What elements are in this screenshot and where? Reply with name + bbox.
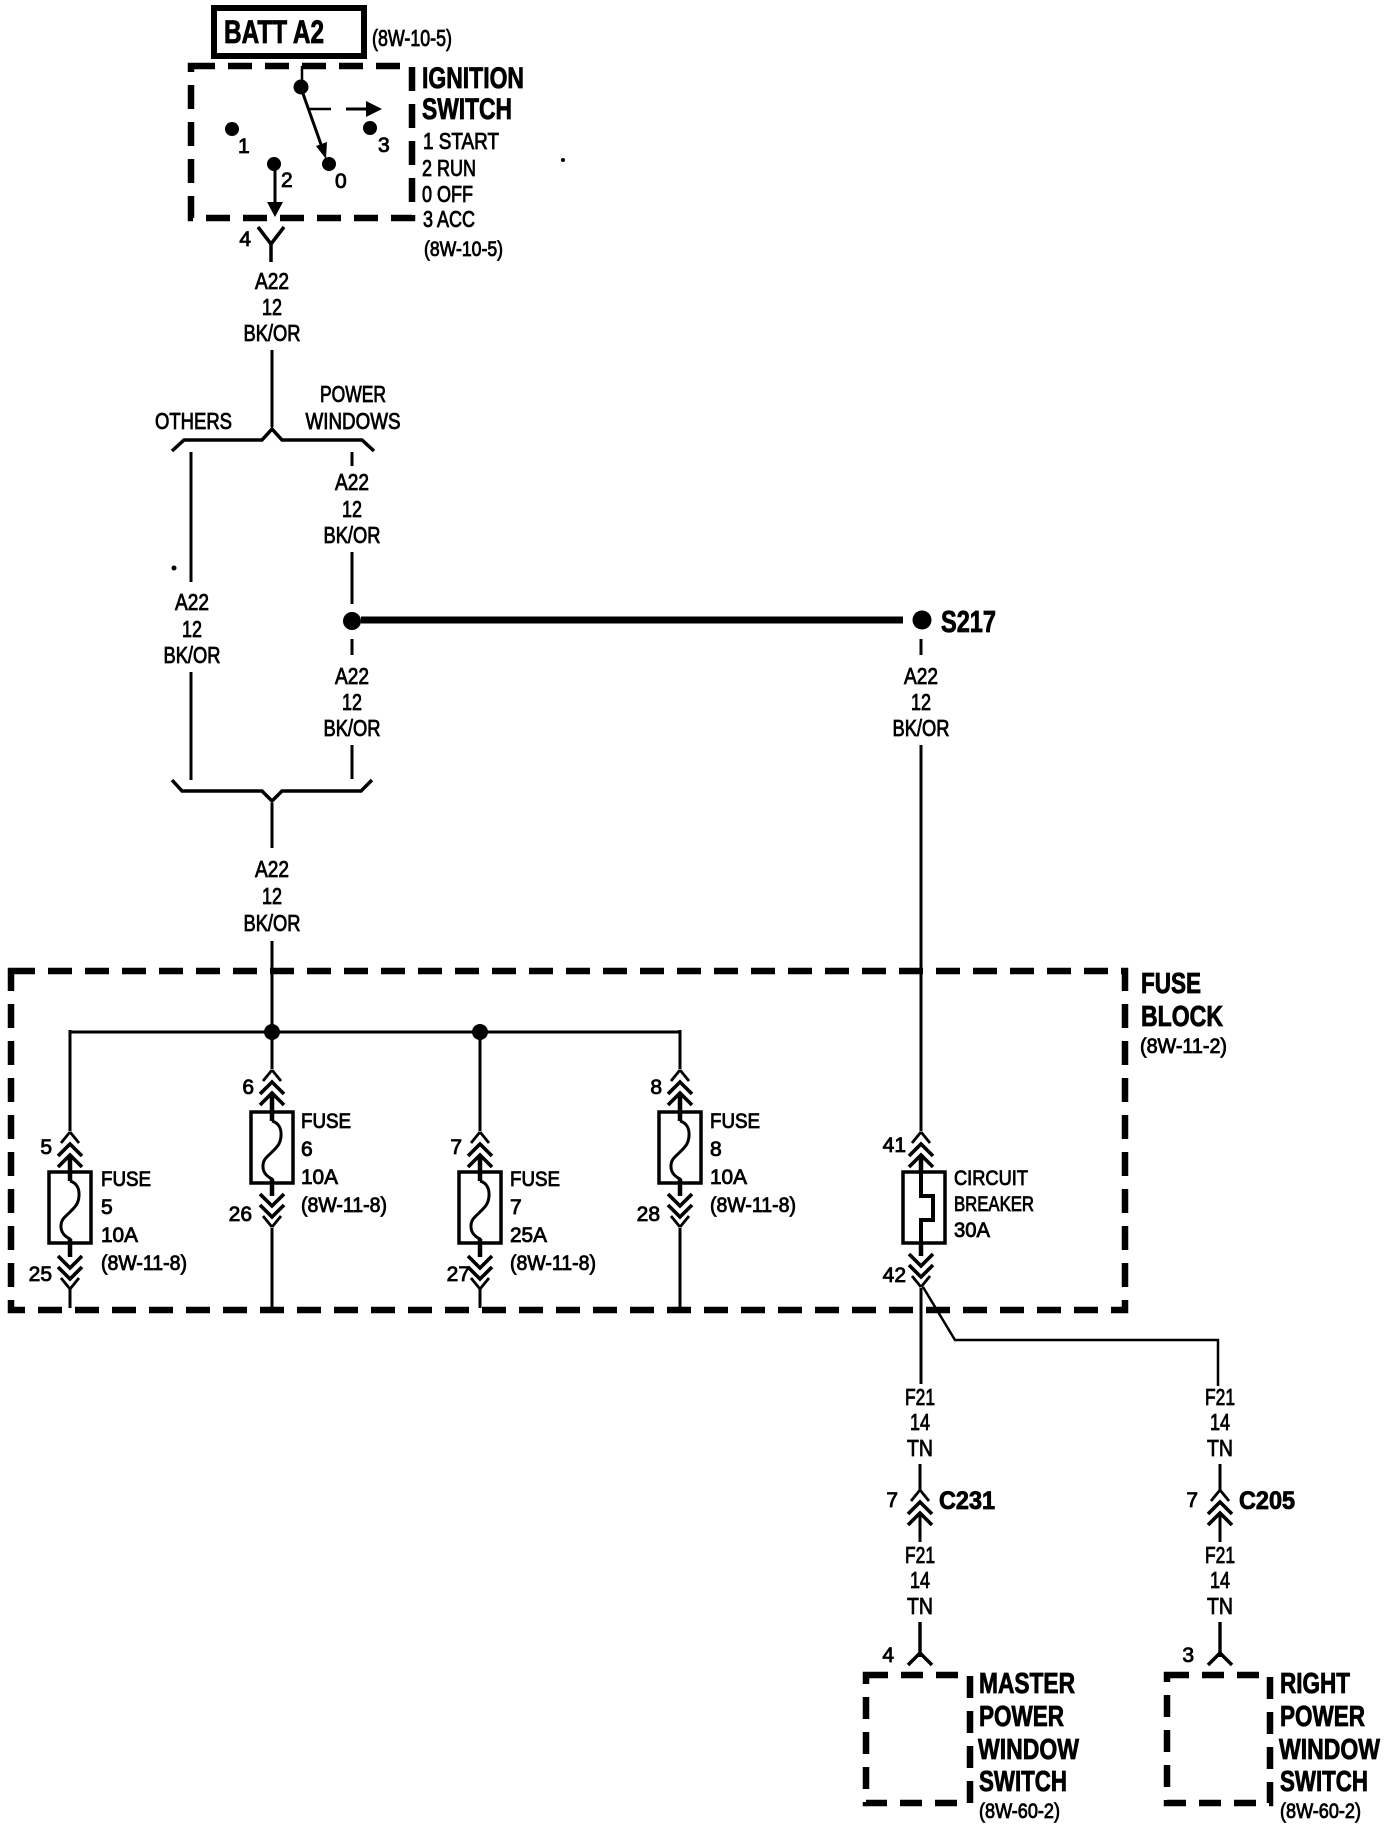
svg-text:12: 12 [342, 496, 362, 522]
svg-text:5: 5 [101, 1196, 113, 1219]
svg-text:(8W-60-2): (8W-60-2) [1280, 1800, 1361, 1823]
svg-text:F21: F21 [1205, 1384, 1235, 1410]
svg-text:FUSE: FUSE [301, 1110, 351, 1133]
svg-text:C205: C205 [1239, 1487, 1295, 1515]
svg-text:4: 4 [239, 228, 251, 251]
svg-text:WINDOWS: WINDOWS [306, 408, 401, 434]
svg-text:14: 14 [910, 1567, 930, 1593]
svg-text:14: 14 [1210, 1409, 1230, 1435]
svg-text:BK/OR: BK/OR [324, 522, 381, 548]
svg-text:3: 3 [1182, 1644, 1194, 1667]
svg-text:25A: 25A [510, 1224, 547, 1247]
svg-text:POWER: POWER [979, 1701, 1064, 1733]
svg-text:10A: 10A [101, 1224, 138, 1247]
svg-text:(8W-10-5): (8W-10-5) [424, 238, 503, 261]
svg-text:POWER: POWER [1280, 1701, 1365, 1733]
svg-text:FUSE: FUSE [1141, 968, 1201, 1000]
svg-text:CIRCUIT: CIRCUIT [954, 1167, 1028, 1190]
svg-text:10A: 10A [710, 1166, 747, 1189]
svg-text:MASTER: MASTER [979, 1668, 1075, 1700]
svg-text:7: 7 [886, 1489, 898, 1512]
svg-text:TN: TN [1207, 1435, 1233, 1461]
svg-text:BK/OR: BK/OR [164, 642, 221, 668]
svg-text:2 RUN: 2 RUN [422, 155, 476, 181]
svg-text:F21: F21 [905, 1542, 935, 1568]
svg-text:A22: A22 [335, 469, 369, 495]
svg-text:8: 8 [710, 1138, 722, 1161]
svg-text:10A: 10A [301, 1166, 338, 1189]
svg-text:12: 12 [911, 689, 931, 715]
svg-text:5: 5 [40, 1136, 52, 1159]
svg-text:3: 3 [378, 134, 390, 157]
svg-text:12: 12 [342, 689, 362, 715]
svg-text:(8W-11-8): (8W-11-8) [710, 1194, 796, 1217]
svg-text:SWITCH: SWITCH [979, 1766, 1067, 1798]
svg-text:A22: A22 [255, 856, 289, 882]
svg-text:2: 2 [281, 169, 293, 192]
svg-text:(8W-11-8): (8W-11-8) [301, 1194, 387, 1217]
svg-text:S217: S217 [941, 604, 996, 639]
svg-text:(8W-11-8): (8W-11-8) [101, 1252, 187, 1275]
svg-text:POWER: POWER [320, 381, 386, 407]
svg-text:TN: TN [907, 1435, 933, 1461]
svg-text:7: 7 [450, 1136, 462, 1159]
svg-text:0: 0 [335, 170, 347, 193]
svg-text:WINDOW: WINDOW [1279, 1734, 1380, 1766]
svg-text:14: 14 [910, 1409, 930, 1435]
svg-text:(8W-11-8): (8W-11-8) [510, 1252, 596, 1275]
svg-text:A22: A22 [904, 663, 938, 689]
svg-text:25: 25 [29, 1263, 52, 1286]
svg-text:FUSE: FUSE [101, 1168, 151, 1191]
svg-text:1 START: 1 START [423, 128, 499, 154]
svg-text:4: 4 [882, 1644, 894, 1667]
svg-text:RIGHT: RIGHT [1280, 1668, 1350, 1700]
svg-text:A22: A22 [175, 589, 209, 615]
svg-text:42: 42 [883, 1264, 906, 1287]
svg-text:BREAKER: BREAKER [954, 1193, 1034, 1216]
svg-text:26: 26 [229, 1203, 252, 1226]
svg-text:A22: A22 [255, 268, 289, 294]
svg-text:A22: A22 [335, 663, 369, 689]
svg-text:41: 41 [883, 1134, 906, 1157]
svg-text:IGNITION: IGNITION [422, 62, 524, 95]
svg-text:8: 8 [650, 1076, 662, 1099]
svg-text:BK/OR: BK/OR [324, 715, 381, 741]
svg-text:(8W-60-2): (8W-60-2) [979, 1800, 1060, 1823]
svg-text:BK/OR: BK/OR [244, 320, 301, 346]
svg-text:14: 14 [1210, 1567, 1230, 1593]
svg-text:30A: 30A [954, 1219, 990, 1242]
svg-text:(8W-11-2): (8W-11-2) [1140, 1035, 1227, 1058]
svg-text:F21: F21 [905, 1384, 935, 1410]
svg-text:0 OFF: 0 OFF [422, 181, 473, 207]
svg-text:SWITCH: SWITCH [422, 93, 512, 126]
svg-text:3 ACC: 3 ACC [423, 206, 475, 232]
svg-text:7: 7 [510, 1196, 522, 1219]
svg-text:TN: TN [907, 1593, 933, 1619]
svg-text:BLOCK: BLOCK [1141, 1001, 1223, 1033]
svg-text:SWITCH: SWITCH [1280, 1766, 1368, 1798]
svg-text:WINDOW: WINDOW [978, 1734, 1079, 1766]
svg-text:BATT A2: BATT A2 [224, 14, 324, 50]
svg-text:27: 27 [447, 1263, 470, 1286]
svg-text:OTHERS: OTHERS [155, 408, 232, 434]
svg-text:7: 7 [1186, 1489, 1198, 1512]
svg-text:6: 6 [242, 1076, 254, 1099]
svg-text:28: 28 [637, 1203, 660, 1226]
svg-text:FUSE: FUSE [710, 1110, 760, 1133]
svg-text:BK/OR: BK/OR [893, 715, 950, 741]
svg-text:1: 1 [238, 135, 250, 158]
svg-text:12: 12 [262, 883, 282, 909]
svg-text:BK/OR: BK/OR [244, 910, 301, 936]
svg-text:TN: TN [1207, 1593, 1233, 1619]
svg-text:6: 6 [301, 1138, 313, 1161]
svg-text:(8W-10-5): (8W-10-5) [372, 25, 452, 51]
svg-text:F21: F21 [1205, 1542, 1235, 1568]
svg-text:FUSE: FUSE [510, 1168, 560, 1191]
svg-text:12: 12 [182, 616, 202, 642]
svg-text:12: 12 [262, 294, 282, 320]
svg-text:C231: C231 [939, 1487, 995, 1515]
